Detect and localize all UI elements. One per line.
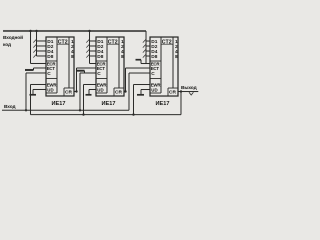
svg-text:8: 8: [121, 54, 124, 60]
wire: clock line Вход: [2, 109, 129, 111]
svg-text:код: код: [3, 43, 11, 48]
svg-text:CR: CR: [115, 90, 122, 96]
svg-text:ECT: ECT: [97, 66, 106, 71]
wire: CR DD1 output stub: [74, 90, 78, 92]
svg-text:8: 8: [175, 54, 178, 60]
wire: EWR DD1 from load line: [30, 84, 46, 114]
wire: carry CR DD2 to ECT DD3: [125, 68, 150, 92]
wire: ECR DD3 constant-level bar symbol: [136, 60, 151, 64]
wire: load feedback line: [30, 114, 181, 116]
wire: code bus corner drop to DD3 data inputs: [146, 31, 150, 56]
svg-text:CT2: CT2: [162, 39, 172, 45]
wire: UD DD1 tied to constant bar: [29, 89, 46, 94]
bus tap ticks DD2: [86, 39, 89, 57]
svg-text:D8: D8: [151, 54, 157, 60]
svg-text:ECT: ECT: [151, 66, 160, 71]
wire: carry CR DD1 to ECT DD2: [76, 68, 96, 92]
svg-text:CT2: CT2: [58, 39, 68, 45]
node: input code bus (Входной код): [3, 30, 146, 32]
wire: ECR DD1 from code bus: [29, 30, 46, 64]
wire: ECR DD2 from code bus drop: [90, 56, 97, 64]
svg-text:ИЕ17: ИЕ17: [155, 101, 169, 107]
wire: CR DD2 output stub: [124, 90, 127, 92]
constant bar symbol near C DD2: [77, 71, 85, 73]
wire: EWR DD3 from load line: [132, 85, 150, 116]
svg-text:ИЕ17: ИЕ17: [51, 101, 65, 107]
counter DD2 (ИЕ17, СТ2) chip body: [96, 37, 124, 96]
wire: C DD2 from clock line: [79, 73, 96, 112]
label: Входной код: [3, 34, 23, 48]
svg-text:C: C: [47, 71, 51, 77]
svg-text:CR: CR: [65, 90, 72, 96]
svg-text:CR: CR: [169, 90, 176, 96]
wire: code bus drop to DD2 data inputs: [88, 30, 96, 56]
svg-text:8: 8: [71, 54, 74, 60]
svg-text:C: C: [97, 71, 101, 77]
wire: ECT DD1 constant-level bar symbol: [25, 68, 46, 70]
bus tap ticks DD1: [33, 39, 36, 57]
svg-text:Выход: Выход: [181, 85, 197, 91]
wire: EWR DD2 from load line: [82, 84, 96, 115]
svg-text:C: C: [151, 71, 155, 77]
svg-text:D8: D8: [47, 54, 53, 60]
svg-text:UD: UD: [97, 88, 103, 93]
svg-text:ECT: ECT: [47, 66, 56, 71]
counter DD1 (ИЕ17, СТ2) chip body: [46, 37, 74, 96]
wire: C DD3 from clock line end: [129, 73, 150, 110]
wire: UD DD3 tied to constant bar: [137, 90, 150, 95]
svg-text:D8: D8: [97, 54, 103, 60]
wire: C DD1 from clock line: [25, 73, 46, 112]
svg-text:Вход: Вход: [4, 104, 16, 110]
svg-text:UD: UD: [47, 88, 53, 93]
bus tap ticks DD3: [143, 39, 146, 57]
svg-text:ИЕ17: ИЕ17: [101, 101, 115, 107]
wire: drop extension to ECR row DD3: [145, 56, 147, 63]
output arrow: [189, 92, 193, 95]
counter DD3 (ИЕ17, СТ2) chip body: [150, 37, 178, 96]
svg-text:Входной: Входной: [3, 34, 23, 41]
wire: code bus drop to DD1 data inputs: [35, 30, 46, 56]
svg-text:UD: UD: [151, 88, 157, 93]
wire: UD DD2 tied to constant bar: [85, 89, 96, 94]
svg-text:CT2: CT2: [108, 39, 118, 45]
wire: CR DD3 output, feedback riser and Выход line: [178, 90, 198, 114]
